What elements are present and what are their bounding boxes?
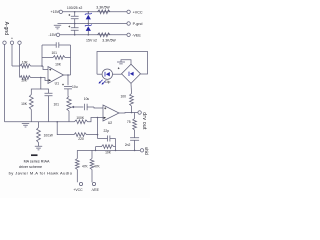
op-amp U1 xyxy=(48,67,64,84)
wire U1 +in branch down xyxy=(31,78,41,95)
capacitor C1 100/25 upper xyxy=(71,12,79,24)
wire input- vertical xyxy=(19,44,21,77)
svg-text:by Javier M.A for Hawk Audio: by Javier M.A for Hawk Audio xyxy=(9,170,73,175)
svg-text:10/1W: 10/1W xyxy=(44,133,53,137)
svg-text:+VCC: +VCC xyxy=(133,10,143,14)
wire main ground rail xyxy=(5,121,75,123)
capacitor C4 101 xyxy=(45,93,53,122)
svg-text:driver scheme: driver scheme xyxy=(19,165,42,169)
title scribble xyxy=(31,154,38,156)
svg-text:MA series RIAA: MA series RIAA xyxy=(24,160,50,164)
svg-text:A-gnd: A-gnd xyxy=(3,22,9,36)
resistor R3 10K feedback xyxy=(42,56,71,60)
svg-text:-15V: -15V xyxy=(48,33,56,37)
node +VCC bias terminal xyxy=(79,182,82,185)
wire to U2 +in xyxy=(94,107,103,108)
diode D1 zener 15V upper xyxy=(86,15,91,20)
svg-text:22p: 22p xyxy=(104,129,110,133)
svg-text:10K: 10K xyxy=(55,63,62,67)
wire 10K left riser xyxy=(95,147,97,151)
capacitor C6 10u coupling xyxy=(85,104,95,110)
node -VEE bias terminal xyxy=(92,182,95,185)
svg-text:U2: U2 xyxy=(108,121,112,125)
wire diamond top to ground xyxy=(121,60,131,64)
svg-text:10K: 10K xyxy=(21,102,28,106)
svg-text:Clip: Clip xyxy=(105,80,111,84)
capacitor C2 100/25 lower xyxy=(71,24,79,35)
node + input terminal xyxy=(10,41,13,44)
node +VCC terminal xyxy=(127,10,130,13)
node +15V input terminal xyxy=(59,10,62,13)
wire row2 to U1 -in xyxy=(41,78,48,81)
wire U2 output rail xyxy=(119,112,138,115)
svg-text:shld: shld xyxy=(144,147,149,155)
node - input terminal xyxy=(18,41,21,44)
diode D2 zener 15V lower xyxy=(86,26,91,31)
svg-text:3.3K/5W: 3.3K/5W xyxy=(96,5,110,9)
LED diode blue xyxy=(106,72,110,76)
svg-text:101: 101 xyxy=(51,51,57,55)
wire A-gnd vertical xyxy=(4,44,6,121)
resistor R5 10/1W xyxy=(37,122,41,146)
ground below 10/1W xyxy=(35,146,42,150)
svg-text:10K: 10K xyxy=(22,61,29,65)
junction bias rail xyxy=(95,150,97,152)
svg-text:100/25 x2: 100/25 x2 xyxy=(67,6,82,10)
op-amp U2 xyxy=(103,105,119,121)
ground rail ground symbol xyxy=(22,123,29,127)
wire U1 out down branch xyxy=(67,75,69,85)
capacitor C3 101 feedback xyxy=(42,42,71,48)
svg-text:101: 101 xyxy=(53,103,59,107)
resistor R10 75 xyxy=(133,113,137,131)
LED light arrows xyxy=(99,80,105,84)
node P-gnd terminal xyxy=(127,22,130,25)
wire mid P-gnd rail xyxy=(65,23,128,25)
wire bottom rail xyxy=(77,149,140,151)
svg-text:47K: 47K xyxy=(82,165,89,169)
resistor R 3.3K/5W upper xyxy=(98,10,111,14)
svg-text:P-gnd: P-gnd xyxy=(133,22,143,26)
wire U2 -in vertical xyxy=(97,118,99,139)
resistor R1 10K input upper xyxy=(20,64,43,68)
svg-text:U1: U1 xyxy=(55,81,59,85)
svg-text:75: 75 xyxy=(127,120,131,124)
svg-text:100: 100 xyxy=(120,94,126,98)
junction dots supply xyxy=(74,11,76,13)
resistor R11 47K xyxy=(75,150,79,182)
node drv out terminal xyxy=(138,111,141,114)
capacitor C5 10u electrolytic xyxy=(64,87,72,97)
svg-text:+VCC: +VCC xyxy=(73,188,83,192)
capacitor C8 2n2 xyxy=(130,130,139,150)
rectifier diamond xyxy=(122,64,141,83)
polarity mark xyxy=(118,67,120,69)
wire U1 output xyxy=(64,74,71,76)
svg-text:100K: 100K xyxy=(76,116,85,120)
svg-text:-VEE: -VEE xyxy=(91,188,100,192)
resistor R9 100 xyxy=(130,94,134,113)
wire 22p riser xyxy=(115,139,117,151)
svg-text:2n2: 2n2 xyxy=(125,143,131,147)
svg-text:220: 220 xyxy=(78,137,84,141)
resistor R8 10K feedback xyxy=(96,145,116,149)
wire 220 branch xyxy=(57,122,72,135)
potentiometer P1 xyxy=(67,97,71,112)
LED clip indicator circle xyxy=(102,69,112,79)
svg-text:+15V: +15V xyxy=(51,10,60,14)
svg-text:10u: 10u xyxy=(72,85,78,89)
resistor R12 47K xyxy=(90,150,94,182)
resistor R4 10K to ground xyxy=(29,95,33,122)
node -15V input terminal xyxy=(56,33,59,36)
ground mid-rail ground xyxy=(58,23,65,25)
svg-text:10u: 10u xyxy=(84,97,90,101)
junction U2 out xyxy=(131,112,133,114)
node shield terminal xyxy=(140,149,143,152)
wire wiper row xyxy=(75,106,84,108)
resistor R7 220 xyxy=(72,133,98,137)
capacitor C7 22p xyxy=(98,136,116,142)
wire U1 feedback left edge xyxy=(41,45,43,66)
svg-text:10K: 10K xyxy=(21,79,28,83)
resistor R 3.3K/5W lower xyxy=(98,33,111,37)
svg-text:-VEE: -VEE xyxy=(132,33,141,37)
wire 100K to U2 -in xyxy=(88,118,104,122)
node A-gnd input terminal xyxy=(3,41,6,44)
diamond inner diode xyxy=(130,72,134,76)
wire row1 to U1 +in xyxy=(43,66,48,70)
svg-text:10K: 10K xyxy=(105,151,112,155)
wire +15V top rail xyxy=(63,11,128,13)
wire -15V bottom rail xyxy=(60,34,127,36)
wire input+ vertical xyxy=(11,44,13,66)
ground diamond ground bar xyxy=(117,62,125,64)
svg-text:47K: 47K xyxy=(94,165,101,169)
pot wiper arrow xyxy=(73,106,75,108)
svg-text:15V x2: 15V x2 xyxy=(86,39,97,43)
node -VEE terminal xyxy=(127,33,130,36)
wire clip loop top rail xyxy=(97,52,148,75)
svg-text:3.3K/5W: 3.3K/5W xyxy=(102,39,116,43)
resistor R6 100K xyxy=(75,120,88,124)
resistor R2 10K input lower xyxy=(20,76,41,80)
wire U1 feedback right edge xyxy=(70,45,72,75)
svg-text:drv out: drv out xyxy=(141,112,147,130)
